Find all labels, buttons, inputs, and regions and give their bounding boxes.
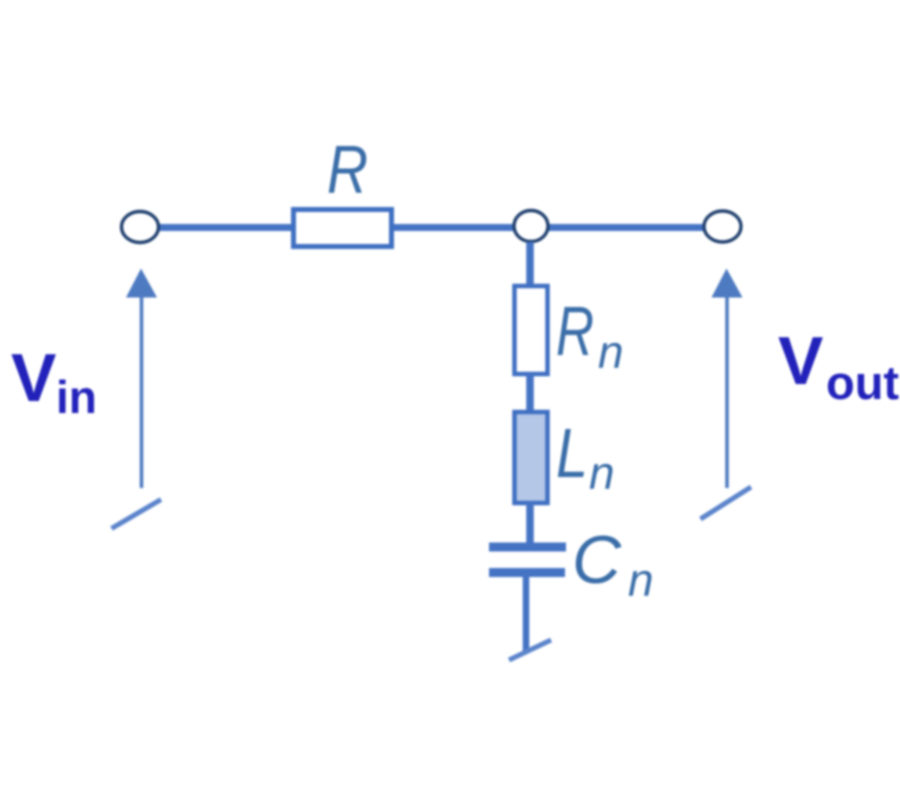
svg-text:n: n — [598, 326, 624, 378]
wire: capacitor Cn to ground reference — [523, 577, 530, 652]
svg-text:C: C — [572, 522, 622, 598]
svg-text:in: in — [56, 371, 97, 423]
wire: junction node to output terminal — [548, 224, 705, 231]
wire: input terminal to resistor R — [158, 224, 293, 231]
svg-text:R: R — [327, 132, 368, 208]
node: input terminal — [122, 212, 159, 243]
Vout reference slash — [701, 487, 752, 519]
Vin reference slash — [112, 500, 162, 529]
capacitor Cn bottom plate — [489, 568, 565, 577]
wire: inductor Ln to capacitor Cn — [526, 503, 534, 543]
resistor R — [294, 210, 392, 247]
label Vout — [778, 323, 899, 409]
svg-text:n: n — [589, 447, 615, 499]
Vout measurement arrow — [712, 269, 743, 489]
label Vin — [11, 340, 97, 423]
svg-text:R: R — [556, 292, 594, 370]
svg-text:V: V — [778, 323, 823, 399]
svg-text:L: L — [556, 414, 588, 492]
label Ln — [556, 414, 615, 499]
resistor Rn — [515, 286, 548, 374]
wire: resistor Rn to inductor Ln — [526, 374, 534, 412]
label Cn — [572, 522, 654, 606]
node: output terminal — [704, 211, 741, 242]
Vin measurement arrow — [126, 269, 157, 489]
label R — [327, 132, 368, 208]
svg-text:n: n — [628, 554, 654, 606]
node: junction of R, Rn branch and output — [514, 211, 548, 242]
inductor Ln — [515, 412, 548, 503]
capacitor Cn top plate — [489, 543, 566, 552]
svg-text:V: V — [11, 340, 56, 416]
label Rn — [556, 292, 624, 378]
wire: resistor R to junction node — [392, 224, 515, 231]
svg-text:out: out — [826, 356, 899, 409]
ground reference slash below Cn — [509, 640, 551, 660]
wire: junction node down to resistor Rn — [526, 242, 534, 288]
